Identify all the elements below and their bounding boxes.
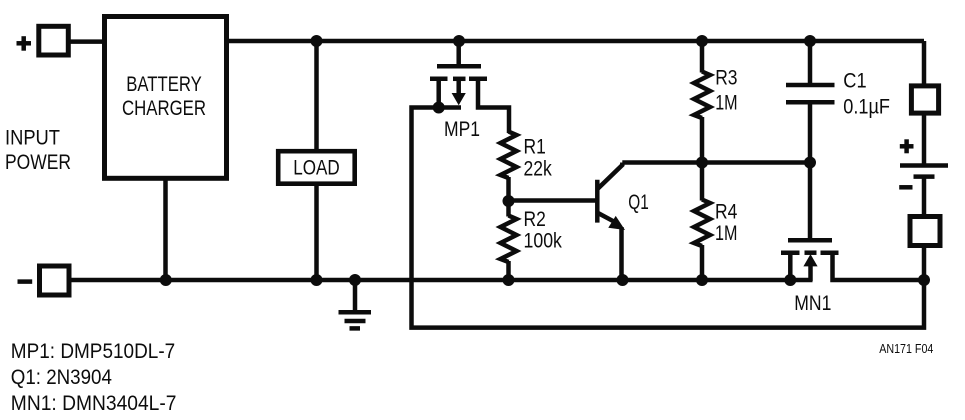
- svg-text:R4: R4: [715, 199, 737, 223]
- transistor Q1 NPN: [597, 163, 625, 281]
- wire top rail corner to battery: [922, 41, 927, 85]
- node R3 top junction: [696, 35, 708, 47]
- label parts list Q1: [11, 365, 112, 389]
- label input power: [5, 126, 71, 174]
- wire bottom ground rail: [69, 278, 813, 283]
- svg-text:Q1: Q1: [628, 190, 649, 214]
- svg-text:0.1µF: 0.1µF: [843, 94, 890, 118]
- svg-text:22k: 22k: [524, 157, 552, 181]
- wire MP1 source loop to battery minus: [412, 108, 925, 328]
- svg-text:R2: R2: [524, 207, 546, 231]
- node C1 MN1 gate junction: [804, 157, 816, 169]
- svg-text:MP1: MP1: [444, 117, 480, 141]
- wire battery bottom box to rail: [922, 246, 927, 280]
- svg-text:R3: R3: [715, 65, 737, 89]
- svg-text:Q1: 2N3904: Q1: 2N3904: [11, 365, 112, 389]
- node C1 top junction: [804, 35, 816, 47]
- svg-text:1M: 1M: [715, 221, 737, 245]
- svg-text:AN171 F04: AN171 F04: [879, 341, 933, 356]
- label parts list MP1: [11, 339, 175, 363]
- svg-text:MN1: DMN3404L-7: MN1: DMN3404L-7: [11, 391, 177, 415]
- svg-text:R1: R1: [524, 134, 546, 158]
- terminal battery bottom box: [910, 217, 940, 246]
- wire battery minus plate to bottom box: [922, 178, 927, 217]
- terminal battery top box: [911, 86, 938, 113]
- svg-text:POWER: POWER: [5, 150, 71, 174]
- svg-text:1M: 1M: [715, 90, 737, 114]
- capacitor C1: [786, 41, 835, 102]
- label figure number AN171 F04: [879, 341, 933, 356]
- node charger bottom junction: [160, 274, 172, 286]
- battery charger box U-charger: [105, 17, 227, 179]
- svg-text:INPUT: INPUT: [5, 126, 60, 150]
- svg-text:BATTERY: BATTERY: [126, 72, 202, 96]
- wire load bottom lead: [314, 183, 319, 280]
- plus sign input: [17, 36, 32, 51]
- label R1 22k: [524, 134, 552, 180]
- label R2 100k: [524, 207, 563, 253]
- resistor R4: [694, 163, 710, 281]
- load box: [278, 151, 355, 184]
- node R4 bottom junction: [696, 274, 708, 286]
- svg-text:MP1: DMP510DL-7: MP1: DMP510DL-7: [11, 339, 175, 363]
- svg-text:C1: C1: [843, 69, 866, 93]
- node R1 R2 base junction: [503, 195, 515, 207]
- svg-text:100k: 100k: [524, 229, 563, 253]
- label C1 0.1uF: [843, 69, 890, 119]
- resistor R3: [694, 41, 710, 163]
- battery cell plates: [900, 166, 948, 177]
- node Q1 emitter junction: [617, 274, 629, 286]
- svg-text:MN1: MN1: [794, 291, 831, 315]
- terminal input plus box: [39, 26, 69, 55]
- plus sign battery: [900, 139, 914, 153]
- label R4 1M: [715, 199, 737, 245]
- ground: [339, 280, 372, 328]
- node R2 bottom junction: [503, 274, 515, 286]
- resistor R2: [501, 201, 517, 280]
- svg-text:CHARGER: CHARGER: [122, 96, 206, 120]
- transistor MP1 P-channel MOSFET: [430, 41, 487, 108]
- node R3 R4 collector junction: [696, 157, 708, 169]
- wire input plus to charger: [69, 39, 104, 44]
- label MN1: [794, 291, 831, 315]
- minus sign battery: [899, 185, 912, 190]
- label Q1: [628, 190, 649, 214]
- node MP1 gate junction on top rail: [453, 35, 465, 47]
- terminal input minus box: [40, 266, 70, 295]
- wire charger bottom lead: [163, 180, 168, 280]
- node load top junction: [311, 35, 323, 47]
- transistor MN1 N-channel MOSFET: [781, 240, 839, 281]
- wire Q1 collector to gate node: [622, 160, 810, 165]
- label MP1: [444, 117, 480, 141]
- wire Q1 base: [509, 198, 597, 203]
- wire load top lead: [314, 41, 319, 152]
- label R3 1M: [715, 65, 737, 114]
- node MN1 source junction: [784, 274, 796, 286]
- svg-text:LOAD: LOAD: [293, 156, 340, 180]
- wire MP1 drain to R1: [478, 79, 509, 133]
- node MP1 source junction: [433, 102, 445, 114]
- wire MN1 drain to battery minus: [833, 253, 925, 280]
- node load bottom junction: [311, 274, 323, 286]
- label parts list MN1: [11, 391, 177, 415]
- node battery bottom junction: [918, 274, 930, 286]
- wire battery box to plus plate: [922, 113, 927, 164]
- minus sign input: [18, 279, 33, 284]
- node ground junction: [349, 274, 361, 286]
- wire top rail: [229, 39, 924, 44]
- resistor R1: [501, 132, 517, 202]
- wire C1 bottom to MN1 gate: [808, 103, 813, 242]
